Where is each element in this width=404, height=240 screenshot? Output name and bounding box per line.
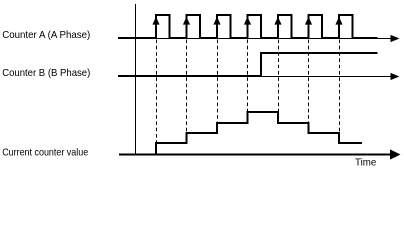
up arrowhead on rising edge 1: [152, 17, 159, 25]
counter A time axis: [118, 38, 392, 40]
current counter value staircase: [156, 112, 362, 155]
time axis arrowhead: [390, 149, 401, 159]
counter A waveform (A phase pulses): [118, 15, 378, 38]
svg-text:Current counter value: Current counter value: [2, 148, 88, 159]
dashed pulse-edge guide line 3: [217, 40, 219, 124]
dashed pulse-edge guide line 1: [156, 40, 158, 144]
svg-text:Time: Time: [355, 157, 376, 168]
time axis (bottom): [119, 154, 391, 156]
counter B waveform (B phase): [118, 53, 378, 76]
counter B time axis: [118, 76, 392, 78]
up arrowhead on rising edge 2: [183, 17, 190, 25]
dashed pulse-edge guide line 4: [247, 40, 249, 113]
dashed pulse-edge guide line 6: [308, 40, 310, 123]
dashed pulse-edge guide line 7: [339, 40, 341, 133]
vertical axis: [135, 4, 137, 155]
up arrowhead on rising edge 7: [335, 17, 342, 25]
up arrowhead on rising edge 6: [305, 17, 312, 25]
up arrowhead on rising edge 5: [274, 17, 281, 25]
dashed pulse-edge guide line 5: [278, 40, 280, 113]
svg-text:Counter B (B Phase): Counter B (B Phase): [2, 68, 90, 79]
up arrowhead on rising edge 3: [213, 17, 220, 25]
svg-text:Counter A (A Phase): Counter A (A Phase): [2, 30, 90, 41]
up arrowhead on rising edge 4: [244, 17, 251, 25]
dashed pulse-edge guide line 2: [186, 40, 188, 134]
counter A axis arrowhead: [391, 35, 400, 42]
counter B axis arrowhead: [391, 73, 400, 80]
